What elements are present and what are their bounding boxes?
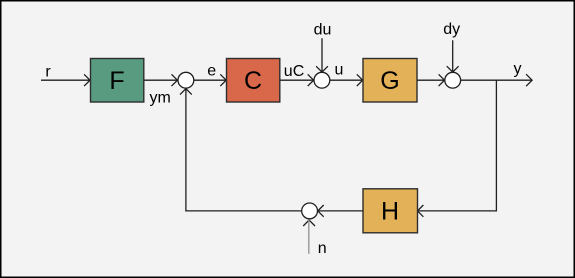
arrowhead into G: [357, 74, 363, 86]
wire sum2 to G: [330, 79, 362, 81]
block H: [363, 189, 418, 233]
block F: [91, 59, 144, 103]
summing junction sum3: [445, 72, 461, 88]
arrowhead into sum1: [172, 74, 178, 86]
arrowhead into H right side: [418, 205, 424, 217]
summing junction sum1: [178, 72, 194, 88]
svg-text:y: y: [514, 61, 522, 78]
wire sum3 to output y: [461, 79, 531, 81]
svg-text:ym: ym: [150, 89, 171, 106]
svg-text:C: C: [244, 67, 262, 95]
block C: [227, 59, 280, 103]
arrowhead n into sum4: [303, 220, 315, 226]
arrowhead into sum4: [318, 205, 324, 217]
wire H to sum4: [319, 210, 363, 212]
wire sum4 back left: [186, 89, 302, 211]
block G: [363, 59, 417, 103]
summing junction sum4: [302, 203, 318, 219]
svg-text:u: u: [335, 62, 344, 79]
svg-text:e: e: [207, 62, 216, 79]
wire output branch down: [419, 80, 497, 211]
svg-text:F: F: [109, 67, 124, 95]
wire r to F: [41, 79, 89, 81]
wire C to sum2: [280, 79, 313, 81]
wire G to sum3: [417, 79, 443, 81]
arrowhead into sum2: [308, 74, 314, 86]
svg-text:H: H: [381, 197, 399, 225]
arrowhead up into sum1: [180, 89, 192, 95]
arrowhead into C: [220, 74, 226, 86]
arrowhead du into sum2: [316, 66, 328, 72]
arrowhead dy into sum3: [447, 66, 459, 72]
summing junction sum2: [314, 72, 330, 88]
svg-text:dy: dy: [443, 21, 460, 38]
wire dy vertical: [452, 40, 454, 71]
svg-text:r: r: [45, 64, 51, 81]
svg-text:du: du: [314, 22, 332, 39]
wire n vertical (gray): [308, 220, 310, 254]
svg-text:uC: uC: [284, 63, 304, 80]
wire F to sum1: [144, 79, 177, 81]
wire du vertical: [321, 38, 323, 71]
wire sum1 to C: [194, 79, 225, 81]
arrowhead into F: [84, 74, 90, 86]
arrowhead into sum3: [439, 74, 445, 86]
arrowhead output y: [526, 74, 532, 86]
svg-text:n: n: [318, 240, 327, 257]
svg-text:G: G: [380, 67, 399, 95]
